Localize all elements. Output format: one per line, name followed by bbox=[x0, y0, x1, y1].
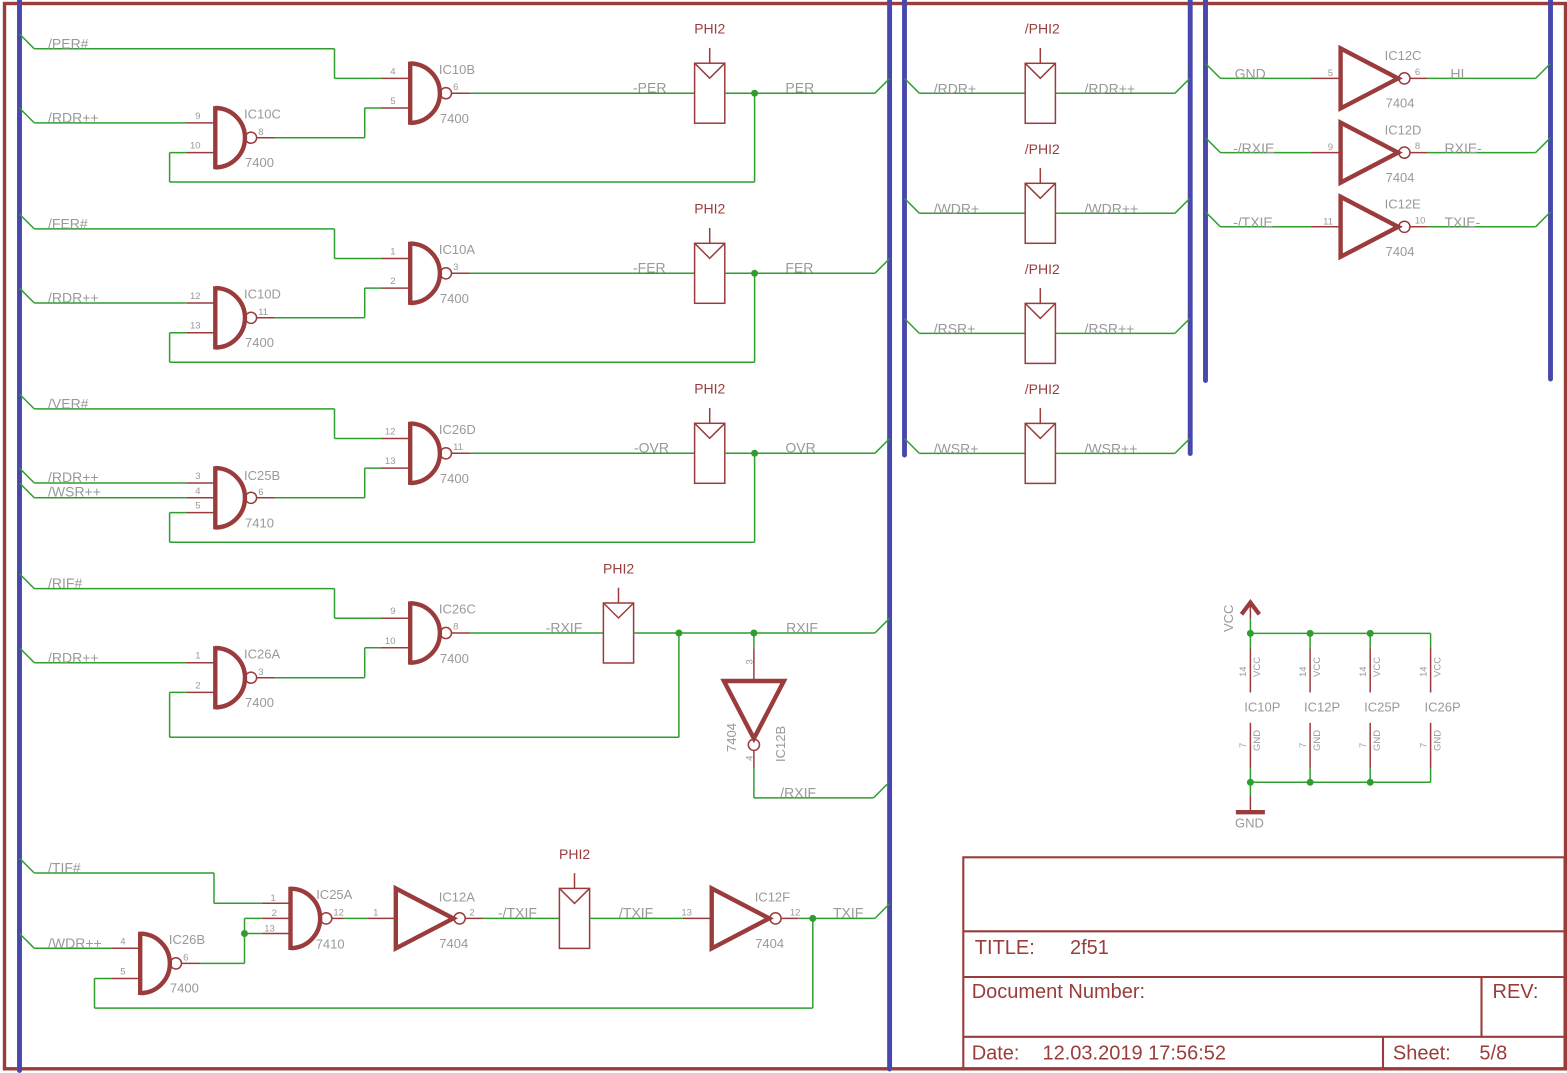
svg-text:VCC: VCC bbox=[1252, 657, 1263, 677]
svg-text:1: 1 bbox=[373, 907, 378, 918]
svg-text:IC25A: IC25A bbox=[316, 887, 352, 902]
svg-text:/RIF#: /RIF# bbox=[48, 575, 82, 591]
svg-text:2: 2 bbox=[272, 908, 277, 919]
svg-text:3: 3 bbox=[258, 667, 263, 678]
svg-text:PHI2: PHI2 bbox=[694, 201, 725, 217]
svg-text:12: 12 bbox=[790, 907, 801, 918]
svg-text:7: 7 bbox=[1298, 743, 1309, 748]
svg-text:TXIF: TXIF bbox=[833, 905, 863, 921]
svg-text:GND: GND bbox=[1432, 730, 1443, 751]
svg-text:IC10P: IC10P bbox=[1244, 699, 1280, 714]
svg-text:14: 14 bbox=[1358, 666, 1369, 677]
svg-text:/VER#: /VER# bbox=[48, 396, 89, 412]
svg-text:GND: GND bbox=[1235, 66, 1266, 82]
svg-text:7404: 7404 bbox=[1386, 244, 1415, 259]
svg-text:5: 5 bbox=[195, 501, 200, 512]
svg-text:12: 12 bbox=[190, 291, 201, 302]
svg-text:IC25P: IC25P bbox=[1364, 699, 1400, 714]
svg-text:6: 6 bbox=[453, 82, 458, 93]
svg-text:2: 2 bbox=[469, 907, 474, 918]
svg-text:-FER: -FER bbox=[633, 260, 666, 276]
svg-text:GND: GND bbox=[1235, 815, 1264, 830]
svg-text:7404: 7404 bbox=[1386, 170, 1415, 185]
svg-text:/RSR++: /RSR++ bbox=[1085, 321, 1135, 337]
svg-text:7: 7 bbox=[1358, 743, 1369, 748]
svg-text:IC12D: IC12D bbox=[1385, 122, 1422, 137]
svg-text:12.03.2019 17:56:52: 12.03.2019 17:56:52 bbox=[1043, 1043, 1227, 1065]
svg-text:7400: 7400 bbox=[245, 155, 274, 170]
svg-text:13: 13 bbox=[264, 923, 275, 934]
svg-text:8: 8 bbox=[1415, 141, 1420, 152]
svg-text:IC12P: IC12P bbox=[1304, 699, 1340, 714]
svg-text:/RSR+: /RSR+ bbox=[934, 321, 976, 337]
svg-text:RXIF: RXIF bbox=[786, 619, 818, 635]
svg-text:TITLE:: TITLE: bbox=[975, 937, 1035, 959]
svg-text:10: 10 bbox=[385, 636, 396, 647]
svg-text:/PHI2: /PHI2 bbox=[1025, 381, 1060, 397]
svg-text:GND: GND bbox=[1372, 730, 1383, 751]
svg-text:4: 4 bbox=[390, 66, 395, 77]
svg-text:8: 8 bbox=[453, 622, 458, 633]
svg-text:IC26C: IC26C bbox=[439, 602, 476, 617]
svg-text:FER: FER bbox=[785, 260, 813, 276]
svg-text:GND: GND bbox=[1252, 730, 1263, 751]
svg-text:2f51: 2f51 bbox=[1070, 937, 1109, 959]
svg-text:VCC: VCC bbox=[1221, 605, 1236, 632]
svg-text:7410: 7410 bbox=[316, 936, 345, 951]
svg-text:Document Number:: Document Number: bbox=[972, 981, 1145, 1003]
svg-text:5/8: 5/8 bbox=[1479, 1043, 1507, 1065]
svg-text:/TIF#: /TIF# bbox=[48, 860, 81, 876]
svg-text:IC12E: IC12E bbox=[1385, 197, 1421, 212]
svg-text:IC10C: IC10C bbox=[244, 106, 281, 121]
svg-text:/FER#: /FER# bbox=[48, 216, 88, 232]
svg-text:Date:: Date: bbox=[972, 1043, 1020, 1065]
svg-text:-RXIF: -RXIF bbox=[546, 619, 583, 635]
svg-text:9: 9 bbox=[1328, 142, 1333, 153]
svg-text:2: 2 bbox=[195, 680, 200, 691]
svg-text:11: 11 bbox=[258, 307, 268, 318]
svg-text:5: 5 bbox=[390, 96, 395, 107]
svg-text:13: 13 bbox=[190, 321, 201, 332]
svg-text:IC12C: IC12C bbox=[1385, 48, 1422, 63]
svg-text:4: 4 bbox=[120, 937, 125, 948]
svg-text:/TXIF: /TXIF bbox=[619, 905, 653, 921]
svg-text:/RDR++: /RDR++ bbox=[1085, 81, 1136, 97]
svg-text:7400: 7400 bbox=[245, 335, 274, 350]
svg-text:5: 5 bbox=[120, 967, 125, 978]
svg-text:3: 3 bbox=[195, 471, 200, 482]
svg-text:IC26P: IC26P bbox=[1425, 699, 1461, 714]
svg-text:PHI2: PHI2 bbox=[694, 21, 725, 37]
svg-text:/PHI2: /PHI2 bbox=[1025, 141, 1060, 157]
svg-text:/PER#: /PER# bbox=[48, 35, 89, 51]
svg-text:7400: 7400 bbox=[440, 471, 469, 486]
svg-text:1: 1 bbox=[271, 893, 276, 904]
svg-text:RXIE-: RXIE- bbox=[1445, 140, 1483, 156]
svg-text:/WDR+: /WDR+ bbox=[934, 201, 980, 217]
svg-text:9: 9 bbox=[390, 606, 395, 617]
svg-text:4: 4 bbox=[744, 756, 755, 761]
svg-text:IC10B: IC10B bbox=[439, 62, 475, 77]
svg-text:10: 10 bbox=[190, 141, 201, 152]
svg-text:/WSR++: /WSR++ bbox=[1085, 441, 1138, 457]
svg-text:11: 11 bbox=[1323, 216, 1333, 227]
svg-text:IC25B: IC25B bbox=[244, 468, 280, 483]
svg-text:4: 4 bbox=[195, 486, 200, 497]
svg-text:10: 10 bbox=[1415, 215, 1426, 226]
svg-text:PER: PER bbox=[785, 80, 814, 96]
svg-text:5: 5 bbox=[1328, 68, 1333, 79]
svg-text:IC26B: IC26B bbox=[169, 932, 205, 947]
svg-text:7400: 7400 bbox=[440, 651, 469, 666]
svg-text:IC26A: IC26A bbox=[244, 646, 280, 661]
svg-text:IC12A: IC12A bbox=[439, 890, 475, 905]
svg-text:VCC: VCC bbox=[1312, 657, 1323, 677]
svg-text:7: 7 bbox=[1418, 743, 1429, 748]
svg-text:/WSR+: /WSR+ bbox=[934, 441, 979, 457]
svg-text:12: 12 bbox=[385, 427, 396, 438]
svg-text:8: 8 bbox=[258, 127, 263, 138]
svg-text:/RDR++: /RDR++ bbox=[48, 290, 99, 306]
svg-text:TXIE-: TXIE- bbox=[1445, 214, 1481, 230]
svg-text:7404: 7404 bbox=[724, 723, 739, 752]
svg-text:7404: 7404 bbox=[1386, 96, 1415, 111]
svg-text:12: 12 bbox=[333, 907, 344, 918]
svg-text:VCC: VCC bbox=[1432, 657, 1443, 677]
svg-text:IC12F: IC12F bbox=[755, 890, 790, 905]
svg-text:7400: 7400 bbox=[440, 111, 469, 126]
svg-text:7400: 7400 bbox=[440, 291, 469, 306]
svg-text:IC26D: IC26D bbox=[439, 422, 476, 437]
svg-text:2: 2 bbox=[390, 276, 395, 287]
svg-text:PHI2: PHI2 bbox=[559, 846, 590, 862]
svg-text:7404: 7404 bbox=[755, 936, 784, 951]
svg-text:7: 7 bbox=[1238, 743, 1249, 748]
svg-text:9: 9 bbox=[195, 111, 200, 122]
svg-text:/WDR++: /WDR++ bbox=[48, 935, 102, 951]
svg-text:/RDR++: /RDR++ bbox=[48, 649, 99, 665]
svg-text:REV:: REV: bbox=[1493, 981, 1539, 1003]
svg-text:-/RXIE: -/RXIE bbox=[1233, 140, 1274, 156]
svg-text:6: 6 bbox=[183, 953, 188, 964]
svg-text:14: 14 bbox=[1298, 666, 1309, 677]
svg-text:6: 6 bbox=[258, 487, 263, 498]
svg-text:3: 3 bbox=[453, 262, 458, 273]
svg-text:/RDR++: /RDR++ bbox=[48, 110, 99, 126]
svg-text:IC10A: IC10A bbox=[439, 242, 475, 257]
svg-text:7404: 7404 bbox=[439, 936, 468, 951]
svg-text:GND: GND bbox=[1312, 730, 1323, 751]
svg-text:6: 6 bbox=[1415, 67, 1420, 78]
svg-text:PHI2: PHI2 bbox=[694, 381, 725, 397]
svg-text:IC12B: IC12B bbox=[773, 726, 788, 762]
svg-text:7410: 7410 bbox=[245, 516, 274, 531]
svg-text:VCC: VCC bbox=[1372, 657, 1383, 677]
svg-text:-OVR: -OVR bbox=[634, 440, 669, 456]
svg-text:HI: HI bbox=[1450, 66, 1464, 82]
svg-text:/PHI2: /PHI2 bbox=[1025, 261, 1060, 277]
svg-text:IC10D: IC10D bbox=[244, 287, 281, 302]
svg-text:/RXIF: /RXIF bbox=[780, 784, 816, 800]
svg-text:7400: 7400 bbox=[245, 695, 274, 710]
svg-text:14: 14 bbox=[1238, 666, 1249, 677]
svg-text:13: 13 bbox=[681, 907, 692, 918]
svg-text:/RDR+: /RDR+ bbox=[934, 81, 976, 97]
svg-text:-/TXIF: -/TXIF bbox=[498, 905, 537, 921]
svg-text:/WDR++: /WDR++ bbox=[1085, 201, 1139, 217]
svg-text:/PHI2: /PHI2 bbox=[1025, 21, 1060, 37]
svg-text:/RDR++: /RDR++ bbox=[48, 469, 99, 485]
svg-text:13: 13 bbox=[385, 456, 396, 467]
svg-text:/WSR++: /WSR++ bbox=[48, 484, 101, 500]
svg-text:11: 11 bbox=[453, 442, 463, 453]
svg-text:1: 1 bbox=[195, 651, 200, 662]
svg-text:1: 1 bbox=[390, 247, 395, 258]
svg-text:PHI2: PHI2 bbox=[603, 560, 634, 576]
svg-text:Sheet:: Sheet: bbox=[1393, 1043, 1451, 1065]
svg-text:7400: 7400 bbox=[170, 981, 199, 996]
svg-text:OVR: OVR bbox=[785, 440, 815, 456]
svg-text:-/TXIE: -/TXIE bbox=[1233, 214, 1273, 230]
svg-text:3: 3 bbox=[744, 659, 755, 664]
svg-text:-PER: -PER bbox=[633, 80, 666, 96]
svg-text:14: 14 bbox=[1418, 666, 1429, 677]
